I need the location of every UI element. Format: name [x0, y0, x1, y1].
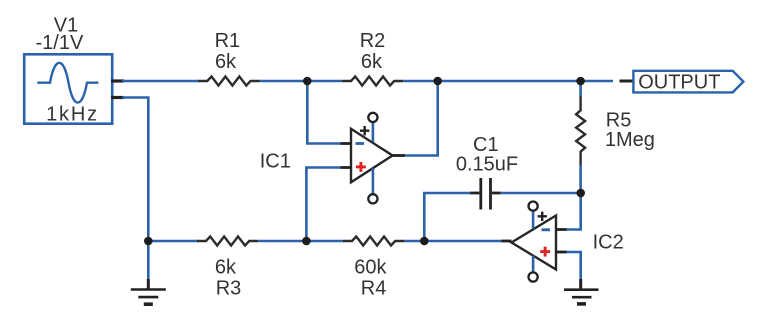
wire R2 to output node [403, 80, 613, 83]
IC1 plus input mark [356, 162, 366, 172]
svg-text:1Meg: 1Meg [605, 129, 655, 151]
svg-text:R4: R4 [361, 278, 387, 300]
junction node C1-R5 [576, 189, 585, 198]
wire V1 plus to R1 [122, 80, 199, 83]
op-amp IC1 triangle [351, 129, 393, 183]
IC1 noninverting input pin stub [341, 166, 352, 169]
junction node R4-C1 [420, 237, 429, 246]
svg-text:6k: 6k [361, 51, 383, 73]
junction node ground rail [144, 237, 153, 246]
IC2 top power pin circle [529, 202, 538, 211]
voltage source V1 body [24, 54, 112, 123]
svg-text:60k: 60k [354, 257, 387, 279]
junction node R3-R4 [302, 237, 311, 246]
wire bottom rail left segment [148, 240, 198, 243]
ground symbol left stem [147, 241, 150, 290]
IC1 top power pin wire [372, 122, 375, 142]
svg-text:1kHz: 1kHz [46, 104, 99, 126]
junction node R1-R2 [303, 77, 312, 86]
wire IC1 output up to node B [405, 81, 438, 156]
IC2 positive supply mark [538, 212, 547, 221]
OUTPUT connector flag [633, 71, 743, 93]
svg-text:IC1: IC1 [260, 151, 291, 173]
wire C1 to node C [501, 192, 581, 195]
IC1 bottom power pin circle [368, 194, 377, 203]
wire R4 to IC2 output [404, 240, 502, 243]
resistor R3 [197, 237, 258, 246]
IC2 top power pin wire [532, 211, 535, 229]
IC2 bottom power pin wire [532, 256, 535, 273]
IC1 inverting input pin stub [341, 142, 352, 145]
wire R3 to R4 [258, 240, 343, 243]
svg-text:IC2: IC2 [593, 232, 624, 254]
svg-text:R3: R3 [216, 278, 242, 300]
resistor R5 [576, 97, 585, 166]
capacitor C1 [471, 178, 501, 210]
wire V1 minus down to ground rail [122, 98, 148, 242]
IC2 output pin stub [502, 240, 512, 243]
svg-text:OUTPUT: OUTPUT [638, 72, 720, 94]
IC2 plus input mark [540, 247, 550, 257]
wire node C down to IC2 inverting input [566, 193, 581, 230]
svg-text:R2: R2 [360, 30, 386, 52]
junction node output-R5 [576, 77, 585, 86]
op-amp IC2 triangle [512, 216, 557, 270]
wire stub to OUTPUT flag [620, 80, 635, 83]
IC1 top power pin circle [368, 113, 377, 122]
wire IC1 noninverting input down to bottom rail [306, 168, 341, 242]
IC2 inverting input pin stub [556, 228, 567, 231]
IC2 bottom power pin circle [529, 272, 538, 281]
resistor R4 [343, 237, 404, 246]
svg-text:6k: 6k [215, 51, 237, 73]
wire node A down to IC1 inverting input [307, 81, 341, 144]
ground symbol right stem [579, 279, 582, 290]
IC1 minus input mark [356, 142, 365, 145]
ground symbol right bars [564, 290, 599, 304]
IC1 output pin stub [393, 154, 406, 157]
resistor R2 [342, 77, 403, 86]
resistor R1 [198, 77, 259, 86]
svg-text:R1: R1 [215, 30, 241, 52]
wire IC2 noninverting input to ground [566, 252, 581, 281]
IC2 minus input mark [542, 228, 551, 231]
IC1 bottom power pin wire [372, 168, 375, 194]
wire node B down branch to capacitor row [424, 193, 471, 241]
svg-text:6k: 6k [215, 257, 237, 279]
V1 negative terminal pin [111, 96, 124, 99]
ground symbol left bars [131, 290, 166, 305]
wire node at output top [579, 81, 582, 97]
wire R5 bottom to node C [579, 165, 582, 193]
svg-text:-1/1V: -1/1V [35, 32, 83, 54]
wire R1 to R2 through node [260, 80, 343, 83]
junction node R2-output [433, 77, 442, 86]
svg-text:0.15uF: 0.15uF [456, 154, 518, 176]
V1 positive terminal pin [111, 79, 124, 82]
IC1 positive supply mark [360, 126, 369, 135]
IC2 noninverting input pin stub [556, 251, 567, 254]
